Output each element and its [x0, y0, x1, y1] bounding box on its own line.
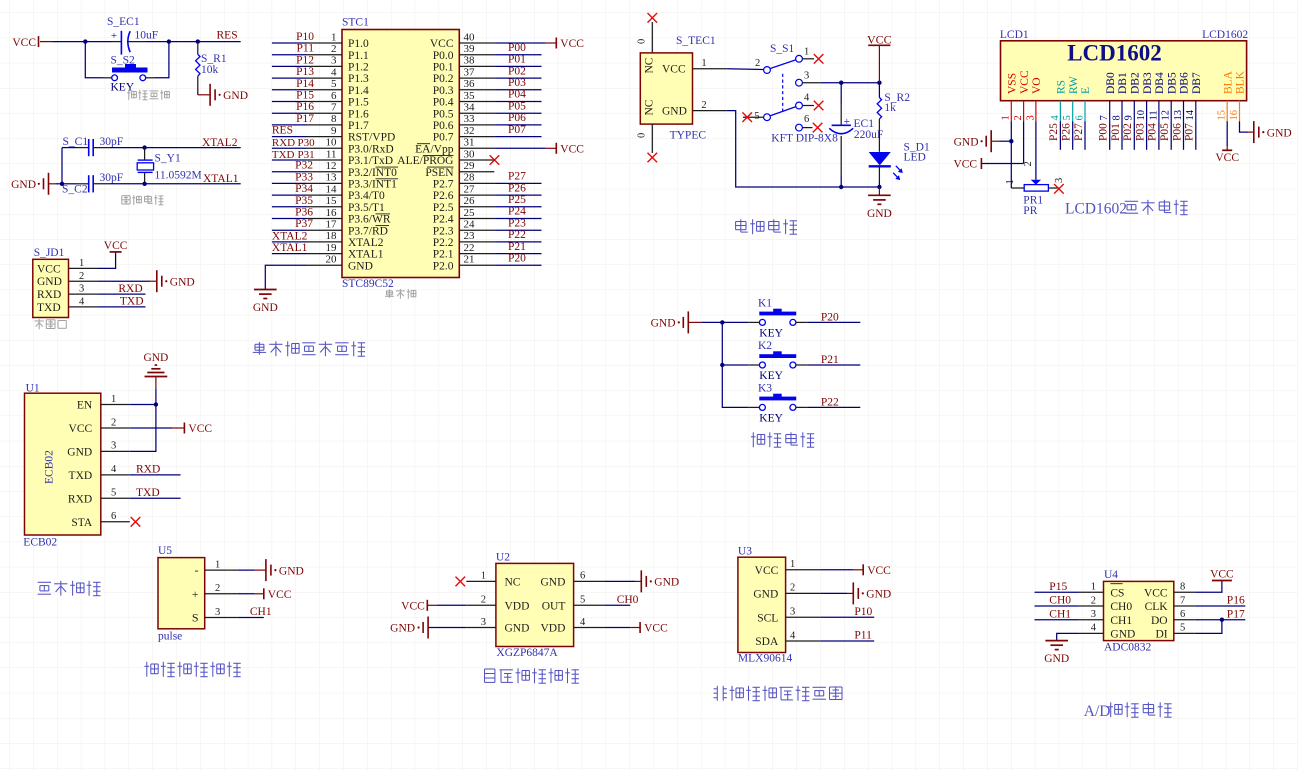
svg-text:DO: DO — [1151, 615, 1168, 627]
module U5 designator — [158, 545, 172, 557]
svg-text:P22: P22 — [508, 229, 526, 241]
svg-text:TXD: TXD — [272, 149, 295, 161]
switch S_S2 — [103, 55, 154, 94]
svg-text:+: + — [844, 116, 850, 128]
svg-text:-: - — [195, 563, 199, 577]
title 单片机最小系统 — [253, 341, 365, 356]
resistor S_R2 — [877, 83, 910, 119]
svg-text:17: 17 — [326, 219, 338, 231]
svg-text:P20: P20 — [508, 253, 526, 265]
svg-text:20: 20 — [326, 254, 338, 266]
svg-text:K2: K2 — [758, 340, 772, 352]
svg-text:6: 6 — [111, 511, 116, 522]
svg-text:P02: P02 — [1122, 123, 1134, 141]
net labels P00-P07 — [508, 42, 526, 136]
net label P22 — [821, 396, 839, 408]
no-connect X pin30 — [490, 155, 500, 165]
svg-text:P06: P06 — [1171, 123, 1183, 141]
svg-text:P3.1/TxD: P3.1/TxD — [348, 155, 393, 167]
svg-text:+: + — [111, 30, 117, 42]
svg-text:P23: P23 — [508, 217, 526, 229]
wire — [130, 474, 181, 476]
svg-text:TXD: TXD — [136, 487, 160, 499]
wire — [110, 147, 145, 149]
wire VCC pin40 — [494, 42, 556, 44]
svg-text:VCC: VCC — [644, 623, 668, 635]
svg-text:TYPEC: TYPEC — [670, 129, 707, 141]
svg-text:S_EC1: S_EC1 — [107, 16, 140, 28]
svg-text:7: 7 — [1180, 595, 1185, 606]
svg-text:P1.0: P1.0 — [348, 38, 369, 50]
net label P16 — [1227, 595, 1245, 607]
svg-text:BLK: BLK — [1235, 70, 1247, 94]
wire — [238, 569, 266, 571]
svg-text:S_S1: S_S1 — [770, 43, 795, 55]
svg-text:VCC: VCC — [560, 38, 584, 50]
svg-text:P3.7/RD: P3.7/RD — [348, 225, 388, 237]
svg-text:RW: RW — [1068, 76, 1080, 94]
capacitor S_EC1 — [107, 16, 158, 55]
svg-text:4: 4 — [790, 630, 796, 641]
svg-text:XTAL2: XTAL2 — [348, 237, 384, 249]
svg-text:26: 26 — [464, 195, 476, 207]
svg-text:3: 3 — [790, 607, 795, 618]
module U3 part number — [738, 652, 793, 664]
svg-text:GND: GND — [866, 589, 891, 601]
connector S_TEC1 top pin — [637, 22, 653, 53]
svg-text:P12: P12 — [296, 54, 314, 66]
junction — [154, 402, 158, 406]
svg-text:P1.4: P1.4 — [348, 85, 369, 97]
wire — [721, 322, 723, 365]
svg-text:6: 6 — [1180, 609, 1185, 620]
label 单片机 — [385, 289, 416, 299]
svg-text:P04: P04 — [508, 89, 526, 101]
svg-text:5: 5 — [1062, 115, 1073, 120]
ic U4 designator — [1104, 569, 1118, 581]
wire — [238, 593, 264, 595]
svg-text:6: 6 — [331, 90, 337, 102]
svg-text:0: 0 — [637, 133, 648, 138]
svg-text:XTAL1: XTAL1 — [203, 173, 239, 185]
power port VCC — [953, 158, 981, 171]
net label P11 — [854, 630, 872, 642]
ic U4 body — [1079, 581, 1195, 640]
svg-text:P3.3/INT1: P3.3/INT1 — [348, 179, 397, 191]
svg-text:P2.6: P2.6 — [433, 190, 454, 202]
svg-text:VCC: VCC — [867, 565, 891, 577]
label 按键复位 — [127, 90, 169, 100]
power port VCC — [867, 33, 892, 47]
svg-text:VCC: VCC — [188, 423, 212, 435]
ground GND — [1254, 121, 1292, 143]
wire VO — [1035, 121, 1037, 180]
svg-text:VCC: VCC — [560, 144, 584, 156]
svg-text:P0.2: P0.2 — [433, 73, 454, 85]
svg-text:2: 2 — [481, 595, 486, 606]
svg-text:XTAL2: XTAL2 — [202, 137, 238, 149]
net label XTAL2 — [202, 137, 238, 149]
wire — [85, 41, 169, 43]
ground GND — [954, 130, 1000, 152]
svg-text:VCC: VCC — [1210, 569, 1234, 581]
svg-text:BLA: BLA — [1222, 70, 1234, 94]
junction — [142, 182, 146, 186]
ground GND — [143, 352, 168, 377]
svg-text:CH0: CH0 — [617, 594, 639, 606]
svg-text:GND: GND — [279, 565, 304, 577]
svg-text:8: 8 — [331, 113, 337, 125]
junction — [167, 39, 171, 43]
wire — [1195, 581, 1222, 593]
svg-text:ADC0832: ADC0832 — [1104, 642, 1152, 654]
wire — [130, 497, 181, 499]
svg-text:P2.5: P2.5 — [433, 202, 454, 214]
svg-text:3: 3 — [481, 617, 486, 628]
svg-text:CH0: CH0 — [1049, 595, 1071, 607]
svg-text:5: 5 — [111, 488, 116, 499]
svg-text:0: 0 — [637, 39, 648, 44]
svg-text:P15: P15 — [296, 90, 314, 102]
wire P32-P37 — [272, 172, 307, 231]
wire — [604, 580, 641, 582]
svg-text:GND: GND — [651, 318, 676, 330]
ic STC1 body — [342, 30, 459, 278]
wire — [807, 364, 860, 366]
svg-text:DB1: DB1 — [1117, 72, 1129, 94]
capacitor S_C2 — [62, 172, 123, 195]
svg-text:10: 10 — [1136, 110, 1147, 121]
svg-text:3: 3 — [79, 284, 84, 295]
svg-text:2: 2 — [1023, 161, 1034, 166]
title 脉搏检测模块 — [144, 662, 240, 677]
svg-text:16: 16 — [1229, 110, 1240, 121]
svg-text:P14: P14 — [296, 78, 314, 90]
net label XTAL2 — [272, 230, 308, 242]
svg-text:3: 3 — [804, 71, 809, 82]
svg-text:P04: P04 — [1147, 123, 1159, 141]
svg-text:P3.6/WR: P3.6/WR — [348, 214, 391, 226]
svg-text:TXD: TXD — [120, 296, 144, 308]
svg-text:14: 14 — [1185, 109, 1196, 120]
svg-text:XTAL1: XTAL1 — [348, 249, 384, 261]
title 按键电路 — [751, 432, 814, 447]
power port VCC — [863, 564, 891, 577]
wire — [1195, 620, 1222, 634]
wire — [701, 321, 748, 323]
svg-text:36: 36 — [464, 78, 476, 90]
svg-text:5: 5 — [580, 595, 585, 606]
wire — [1000, 140, 1012, 142]
svg-text:40: 40 — [464, 31, 476, 43]
svg-text:8: 8 — [1180, 582, 1185, 593]
svg-text:EN: EN — [77, 400, 93, 412]
svg-text:VO: VO — [1031, 77, 1043, 94]
svg-text:35: 35 — [464, 90, 476, 102]
svg-text:P2.4: P2.4 — [433, 214, 454, 226]
wire GND pin20 — [265, 265, 306, 289]
wire — [1195, 605, 1246, 607]
connector S_TEC1 pin2 — [693, 100, 727, 111]
svg-text:P0.4: P0.4 — [433, 97, 454, 109]
junction — [720, 320, 724, 324]
svg-text:MLX90614: MLX90614 — [738, 652, 793, 664]
net label CH1 — [1049, 608, 1071, 620]
svg-text:P00: P00 — [1098, 123, 1110, 141]
svg-text:P25: P25 — [1048, 123, 1060, 141]
svg-text:3: 3 — [215, 607, 220, 618]
svg-text:KFT DIP-8X8: KFT DIP-8X8 — [771, 133, 838, 145]
svg-text:CH1: CH1 — [250, 606, 272, 618]
junction — [142, 145, 146, 149]
svg-text:CH0: CH0 — [1110, 601, 1132, 613]
svg-text:STA: STA — [71, 517, 92, 529]
svg-text:3: 3 — [1091, 609, 1096, 620]
svg-text:VCC: VCC — [69, 423, 93, 435]
ground GND — [198, 84, 248, 106]
svg-text:STC1: STC1 — [342, 17, 369, 29]
ground GND — [641, 570, 679, 592]
svg-text:15: 15 — [1217, 110, 1228, 121]
wire — [145, 183, 241, 185]
svg-text:P2.0: P2.0 — [433, 260, 454, 272]
svg-text:KEY: KEY — [759, 328, 783, 340]
svg-text:CS: CS — [1110, 587, 1124, 599]
svg-text:15: 15 — [326, 195, 338, 207]
svg-text:GND: GND — [1267, 127, 1292, 139]
svg-text:5: 5 — [1180, 623, 1185, 634]
crystal S_Y1 — [137, 148, 201, 184]
wire BLK — [1240, 121, 1254, 132]
wire — [722, 364, 748, 366]
svg-text:XTAL1: XTAL1 — [272, 242, 308, 254]
potentiometer PR1 — [1005, 161, 1065, 217]
label KFT DIP-8X8 — [771, 133, 838, 145]
svg-text:27: 27 — [464, 183, 476, 195]
net label XTAL1 — [203, 173, 239, 185]
ground GND — [867, 195, 892, 220]
svg-text:P20: P20 — [821, 311, 839, 323]
wire — [130, 405, 156, 452]
title LCD1602显示电路 — [1065, 200, 1188, 218]
svg-text:P33: P33 — [295, 171, 313, 183]
svg-text:VCC: VCC — [268, 589, 292, 601]
svg-text:3: 3 — [1025, 115, 1036, 120]
net labels P10-P17 — [296, 31, 314, 125]
svg-text:2: 2 — [701, 100, 706, 111]
svg-text:DB6: DB6 — [1179, 72, 1191, 94]
svg-text:GND: GND — [348, 260, 373, 272]
module U5 body — [158, 558, 238, 629]
svg-text:LCD1: LCD1 — [1000, 29, 1029, 41]
svg-text:P2.3: P2.3 — [433, 225, 454, 237]
svg-text:P1.6: P1.6 — [348, 108, 369, 120]
net label P21 — [821, 354, 839, 366]
no-connect X — [813, 123, 823, 133]
svg-text:SDA: SDA — [755, 636, 779, 648]
svg-text:1: 1 — [804, 47, 809, 58]
net label CH1 — [250, 606, 272, 618]
svg-text:1: 1 — [701, 58, 706, 69]
key K1 — [748, 297, 807, 339]
wire — [56, 183, 62, 185]
svg-text:RST/VPD: RST/VPD — [348, 132, 395, 144]
svg-text:S_C2: S_C2 — [62, 183, 88, 195]
svg-text:24: 24 — [464, 219, 476, 231]
net label RXD — [118, 283, 142, 295]
svg-text:P0.3: P0.3 — [433, 85, 454, 97]
svg-text:P24: P24 — [508, 206, 526, 218]
wire — [1057, 633, 1079, 640]
module U1 body — [25, 393, 130, 535]
svg-text:31: 31 — [464, 137, 475, 149]
svg-text:1: 1 — [1091, 582, 1096, 593]
svg-text:GND: GND — [654, 577, 679, 589]
svg-text:P0.7: P0.7 — [433, 132, 454, 144]
svg-text:P1.2: P1.2 — [348, 62, 369, 74]
svg-text:6: 6 — [1074, 115, 1085, 120]
svg-text:P3.0/RxD: P3.0/RxD — [348, 143, 394, 155]
ground GND — [11, 173, 56, 195]
svg-text:13: 13 — [326, 172, 338, 184]
svg-text:CLK: CLK — [1145, 601, 1169, 613]
svg-text:10uF: 10uF — [135, 30, 159, 42]
connector S_TEC1 bottom pin — [637, 124, 653, 153]
wire — [155, 377, 157, 405]
svg-text:4: 4 — [1091, 623, 1097, 634]
svg-text:4: 4 — [1050, 115, 1061, 121]
svg-text:P34: P34 — [295, 183, 313, 195]
wire — [807, 406, 860, 408]
svg-text:RXD: RXD — [118, 283, 142, 295]
svg-text:P25: P25 — [508, 194, 526, 206]
net label CH0 — [617, 594, 639, 606]
connector S_TEC1 designator — [676, 35, 716, 47]
wire — [604, 627, 640, 629]
svg-text:2: 2 — [1091, 595, 1096, 606]
ic STC1 designator — [342, 17, 369, 29]
svg-text:VCC: VCC — [12, 37, 36, 49]
svg-text:EA/Vpp: EA/Vpp — [415, 143, 454, 155]
svg-text:DB7: DB7 — [1191, 72, 1203, 94]
net label RES — [272, 125, 293, 137]
capacitor S_C1 — [63, 136, 124, 156]
svg-text:RES: RES — [272, 125, 293, 137]
svg-text:RXD: RXD — [272, 137, 295, 149]
connector S_TEC1 pin1 — [693, 58, 727, 69]
svg-text:P01: P01 — [1110, 123, 1122, 141]
svg-text:P10: P10 — [854, 606, 872, 618]
capacitor EC1 — [829, 83, 883, 187]
svg-text:GND: GND — [390, 623, 415, 635]
ground GND — [1044, 641, 1069, 666]
svg-text:S_JD1: S_JD1 — [34, 247, 65, 259]
svg-text:VDD: VDD — [540, 623, 565, 635]
svg-text:GND: GND — [253, 302, 278, 314]
svg-text:U3: U3 — [738, 546, 752, 558]
svg-text:KEY: KEY — [759, 370, 783, 382]
svg-text:VDD: VDD — [505, 600, 530, 612]
no-connect X — [814, 101, 824, 111]
net labels P27-P20 — [508, 171, 526, 265]
svg-text:P21: P21 — [508, 241, 526, 253]
wire RES — [272, 136, 307, 138]
wire P10-P17 — [272, 43, 307, 125]
svg-text:9: 9 — [1124, 115, 1135, 120]
title 蓝牙模块 — [38, 581, 101, 596]
svg-text:2: 2 — [111, 417, 116, 428]
wire — [878, 187, 880, 195]
wire — [727, 68, 764, 71]
svg-text:3: 3 — [331, 55, 337, 67]
svg-text:2: 2 — [331, 43, 337, 55]
svg-text:12: 12 — [1161, 110, 1172, 121]
key K2 — [748, 340, 807, 382]
svg-text:29: 29 — [464, 160, 476, 172]
svg-text:P32: P32 — [295, 160, 313, 172]
wire — [1195, 619, 1246, 621]
svg-text:GND: GND — [67, 447, 92, 459]
svg-text:VCC: VCC — [867, 33, 892, 47]
wire VCC — [981, 121, 1023, 163]
svg-text:P3.2/INT0: P3.2/INT0 — [348, 167, 397, 179]
power port VCC — [556, 38, 584, 51]
svg-text:5: 5 — [754, 111, 759, 122]
no-connect X — [648, 13, 658, 23]
wire — [878, 166, 880, 187]
svg-text:PSEN: PSEN — [425, 167, 454, 179]
svg-text:GND: GND — [1044, 653, 1069, 665]
svg-text:1: 1 — [481, 571, 486, 582]
svg-text:P05: P05 — [508, 100, 526, 112]
power port VCC — [184, 423, 212, 436]
svg-text:LCD1602: LCD1602 — [1067, 41, 1162, 66]
svg-text:22: 22 — [464, 242, 475, 254]
svg-text:P21: P21 — [821, 354, 839, 366]
wire — [99, 252, 116, 268]
module U2 part number — [496, 647, 558, 659]
svg-text:GND: GND — [662, 106, 687, 118]
led S_D1 — [869, 142, 930, 181]
no-connect X — [1054, 184, 1064, 194]
wire — [62, 148, 77, 184]
module U5 label — [158, 631, 182, 643]
svg-text:P27: P27 — [508, 171, 526, 183]
lcd LCD1602 comment — [1202, 29, 1248, 41]
svg-text:14: 14 — [326, 183, 338, 195]
lcd LCD1 body — [1001, 41, 1247, 101]
svg-text:RES: RES — [217, 29, 238, 41]
junction — [60, 182, 64, 186]
svg-text:RXD: RXD — [136, 464, 160, 476]
svg-text:VCC: VCC — [755, 565, 779, 577]
wire — [722, 365, 748, 407]
junction — [877, 81, 881, 85]
svg-text:S_Y1: S_Y1 — [155, 153, 181, 165]
wire — [145, 147, 241, 149]
svg-text:S_C1: S_C1 — [63, 136, 89, 148]
svg-text:1: 1 — [790, 559, 795, 570]
svg-text:P11: P11 — [297, 43, 315, 55]
wire — [238, 617, 264, 619]
wire — [110, 183, 145, 185]
svg-text:P2.2: P2.2 — [433, 237, 454, 249]
wire GND rail — [727, 111, 880, 187]
svg-text:E: E — [1080, 87, 1092, 94]
junction — [839, 185, 843, 189]
wire — [878, 45, 880, 82]
svg-text:33: 33 — [464, 113, 476, 125]
